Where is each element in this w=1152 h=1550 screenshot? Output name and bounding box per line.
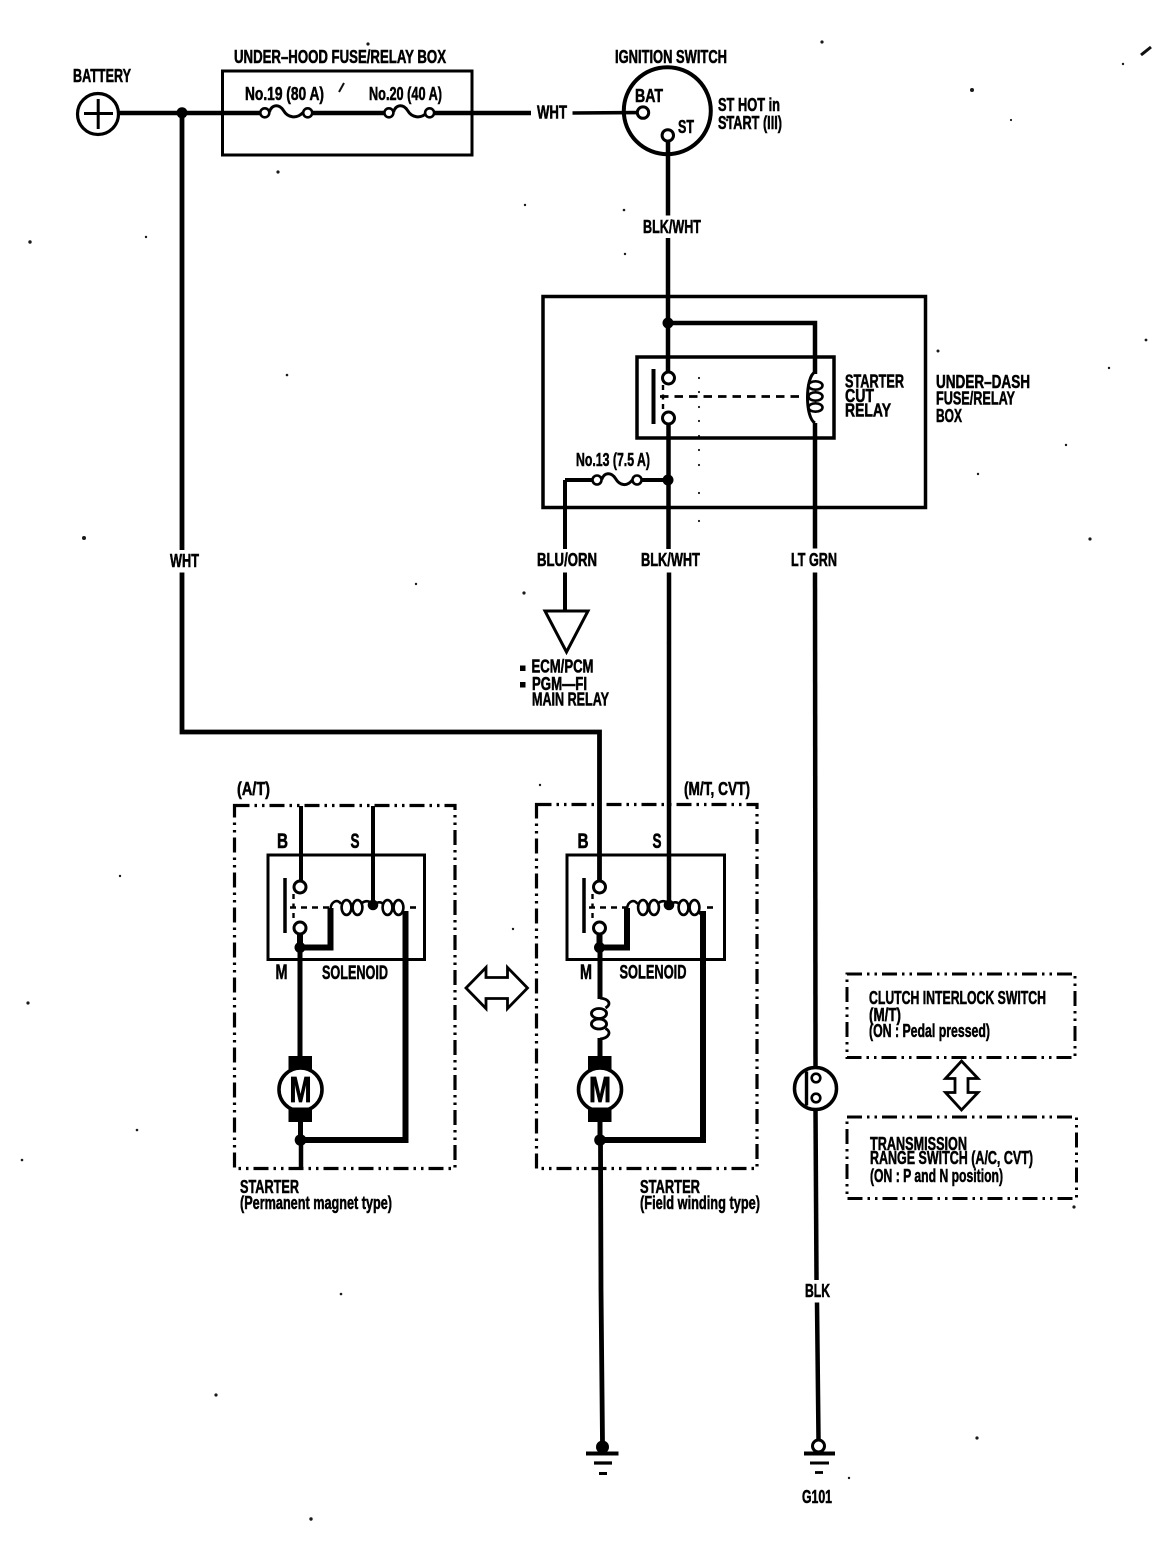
svg-text:IGNITION SWITCH: IGNITION SWITCH (615, 47, 727, 67)
svg-text:B: B (578, 830, 589, 853)
solenoid (A/T) (268, 855, 425, 960)
wire ST to starter cut relay (BLK/WHT) (666, 141, 671, 215)
svg-text:(Field winding type): (Field winding type) (640, 1193, 760, 1213)
svg-text:BLK/WHT: BLK/WHT (641, 550, 700, 570)
fuse No.20 (40 A) (369, 84, 442, 117)
relay contact bar (652, 369, 656, 424)
wire return to coil (M/T) (600, 911, 703, 1140)
svg-text:UNDER–HOOD FUSE/RELAY BOX: UNDER–HOOD FUSE/RELAY BOX (234, 47, 446, 67)
transmission range switch box (847, 1117, 1077, 1199)
ground (starter) (586, 1454, 619, 1474)
solenoid (M/T) pull-in coil (627, 900, 669, 915)
svg-text:(A/T): (A/T) (237, 779, 270, 799)
svg-text:B: B (277, 830, 288, 853)
arrow to ECM/PCM (545, 611, 588, 652)
fuse No.13 (7.5 A) (576, 450, 650, 485)
wire fuse 13 left lead (565, 478, 593, 482)
junction battery / WHT feed (177, 107, 188, 118)
wire starter to ground (601, 1140, 603, 1443)
solenoid (A/T) pull-in coil (331, 900, 373, 915)
relay coil (808, 372, 823, 423)
wire relay to starter S (BLK/WHT) (666, 424, 671, 549)
solenoid (M/T) (567, 855, 725, 960)
terminal ST (662, 130, 673, 141)
motor (M/T) (579, 1056, 622, 1122)
solenoid (M/T) junction M (594, 942, 605, 953)
svg-text:S: S (653, 830, 662, 853)
svg-text:(ON : Pedal pressed): (ON : Pedal pressed) (869, 1021, 990, 1041)
solenoid (M/T) hold-in coil (670, 900, 704, 915)
svg-text:M: M (589, 1069, 611, 1110)
starter cut relay (637, 357, 834, 438)
svg-text:BATTERY: BATTERY (73, 66, 131, 86)
svg-text:M: M (290, 1069, 312, 1110)
svg-text:No.19 (80 A): No.19 (80 A) (245, 84, 324, 104)
svg-text:WHT: WHT (537, 103, 567, 123)
wire between fuses (312, 111, 384, 116)
wire battery to under-hood fuse box (119, 111, 261, 116)
equivalence arrow between switch boxes (946, 1061, 979, 1110)
svg-text:G101: G101 (802, 1487, 832, 1507)
solenoid (M/T) terminal M (594, 922, 606, 934)
svg-text:ST HOT in: ST HOT in (718, 95, 780, 115)
battery (78, 94, 119, 135)
relay linkage dashes (662, 385, 664, 412)
svg-text:BOX: BOX (936, 406, 962, 426)
wire switch to ground (BLK) (816, 1109, 817, 1280)
motor (A/T) (279, 1056, 322, 1122)
field winding (M/T) (591, 998, 609, 1039)
solenoid (M/T) contact bar (582, 878, 586, 933)
wire junction to relay coil (668, 323, 815, 374)
svg-text:(Permanent magnet type): (Permanent magnet type) (240, 1193, 392, 1213)
solenoid (M/T) M jumper wire (600, 908, 628, 948)
svg-text:BAT: BAT (635, 86, 663, 106)
wire field winding to motor (M/T) (598, 1038, 603, 1060)
svg-text:No.20 (40 A): No.20 (40 A) (369, 84, 442, 104)
label STARTER (Permanent magnet type) (240, 1177, 392, 1213)
wire motor to junction (M/T) (598, 1121, 603, 1140)
svg-text:MAIN RELAY: MAIN RELAY (532, 690, 609, 710)
wire fuse box to ignition switch (WHT) (434, 111, 531, 116)
solenoid (M/T) linkage dashes (591, 894, 593, 921)
wire S (A/T) (371, 806, 375, 903)
svg-text:(ON : P and N position): (ON : P and N position) (870, 1166, 1003, 1186)
junction motor return (A/T) (295, 1134, 307, 1146)
under-hood fuse/relay box (223, 71, 473, 155)
clutch interlock switch / transmission range switch symbol (795, 1068, 837, 1110)
svg-text:START (III): START (III) (718, 113, 782, 133)
solenoid (A/T) junction M (295, 942, 306, 953)
svg-text:ST: ST (678, 117, 694, 137)
equivalence arrow between starters (466, 968, 528, 1009)
ground G101 (804, 1454, 835, 1473)
svg-text:RELAY: RELAY (845, 401, 891, 421)
wire motor to junction (A/T) (298, 1121, 303, 1140)
svg-text:SOLENOID: SOLENOID (620, 962, 687, 984)
starter (A/T) box (235, 806, 456, 1169)
corner tick top right (1141, 47, 1151, 55)
solenoid (A/T) linkage dashes (292, 894, 294, 921)
junction BLK/WHT to relay coil (663, 318, 674, 329)
svg-text:RANGE SWITCH (A/C, CVT): RANGE SWITCH (A/C, CVT) (870, 1148, 1033, 1168)
svg-text:M: M (276, 961, 288, 984)
wire WHT battery to starter B (180, 113, 185, 550)
solenoid (A/T) M jumper wire (300, 908, 331, 948)
junction at ground (596, 1441, 609, 1454)
note ECM/PCM PGM-FI MAIN RELAY (520, 657, 609, 710)
relay contact terminals (663, 372, 675, 384)
fuse No.19 (80 A) (245, 84, 324, 117)
under-dash box label (936, 372, 1030, 426)
solenoid (A/T) terminal B (294, 881, 306, 893)
svg-text:WHT: WHT (170, 551, 199, 571)
solenoid (M/T) junction S (664, 900, 675, 911)
wire BLU/ORN (563, 480, 567, 549)
note ST HOT in START (III) (718, 95, 782, 133)
terminal BAT (637, 107, 648, 118)
solenoid (M/T) terminal B (594, 881, 606, 893)
solenoid (A/T) hold-in coil (374, 900, 406, 915)
svg-text:BLK: BLK (805, 1281, 830, 1301)
svg-text:LT GRN: LT GRN (791, 550, 837, 570)
under-dash fuse/relay box (543, 297, 926, 508)
svg-text:(M/T, CVT): (M/T, CVT) (684, 779, 750, 799)
starter (M/T, CVT) box (537, 805, 758, 1169)
svg-text:S: S (351, 830, 360, 853)
wire solenoid M to motor (A/T) (298, 947, 303, 1060)
junction motor return (M/T) (594, 1134, 606, 1146)
wire return to coil (A/T) (301, 911, 406, 1140)
svg-text:No.13 (7.5 A): No.13 (7.5 A) (576, 450, 650, 470)
stray slash mark near fuse labels (339, 83, 344, 92)
ignition switch (624, 67, 711, 154)
svg-text:M: M (580, 961, 592, 984)
clutch interlock switch label (869, 988, 1046, 1041)
wire LT GRN relay coil to switch (813, 423, 818, 549)
svg-text:BLU/ORN: BLU/ORN (537, 550, 597, 570)
ground terminal G101 (813, 1440, 825, 1452)
wire fuse 13 right lead (642, 478, 669, 482)
wire B (A/T) (299, 806, 303, 882)
junction fuse 13 on BLK/WHT (663, 475, 674, 486)
relay label (845, 372, 904, 421)
svg-text:BLK/WHT: BLK/WHT (643, 217, 701, 237)
solenoid (A/T) terminal M (294, 922, 306, 934)
wire solenoid M down (M/T) (598, 947, 603, 999)
label STARTER (Field winding type) (640, 1177, 760, 1213)
solenoid (A/T) junction S (368, 900, 379, 911)
transmission range switch label (870, 1134, 1033, 1186)
wire stub below junction (A/T) (299, 1140, 304, 1170)
svg-text:SOLENOID: SOLENOID (322, 962, 388, 984)
clutch interlock switch box (847, 974, 1075, 1058)
solenoid (A/T) contact bar (283, 878, 287, 933)
